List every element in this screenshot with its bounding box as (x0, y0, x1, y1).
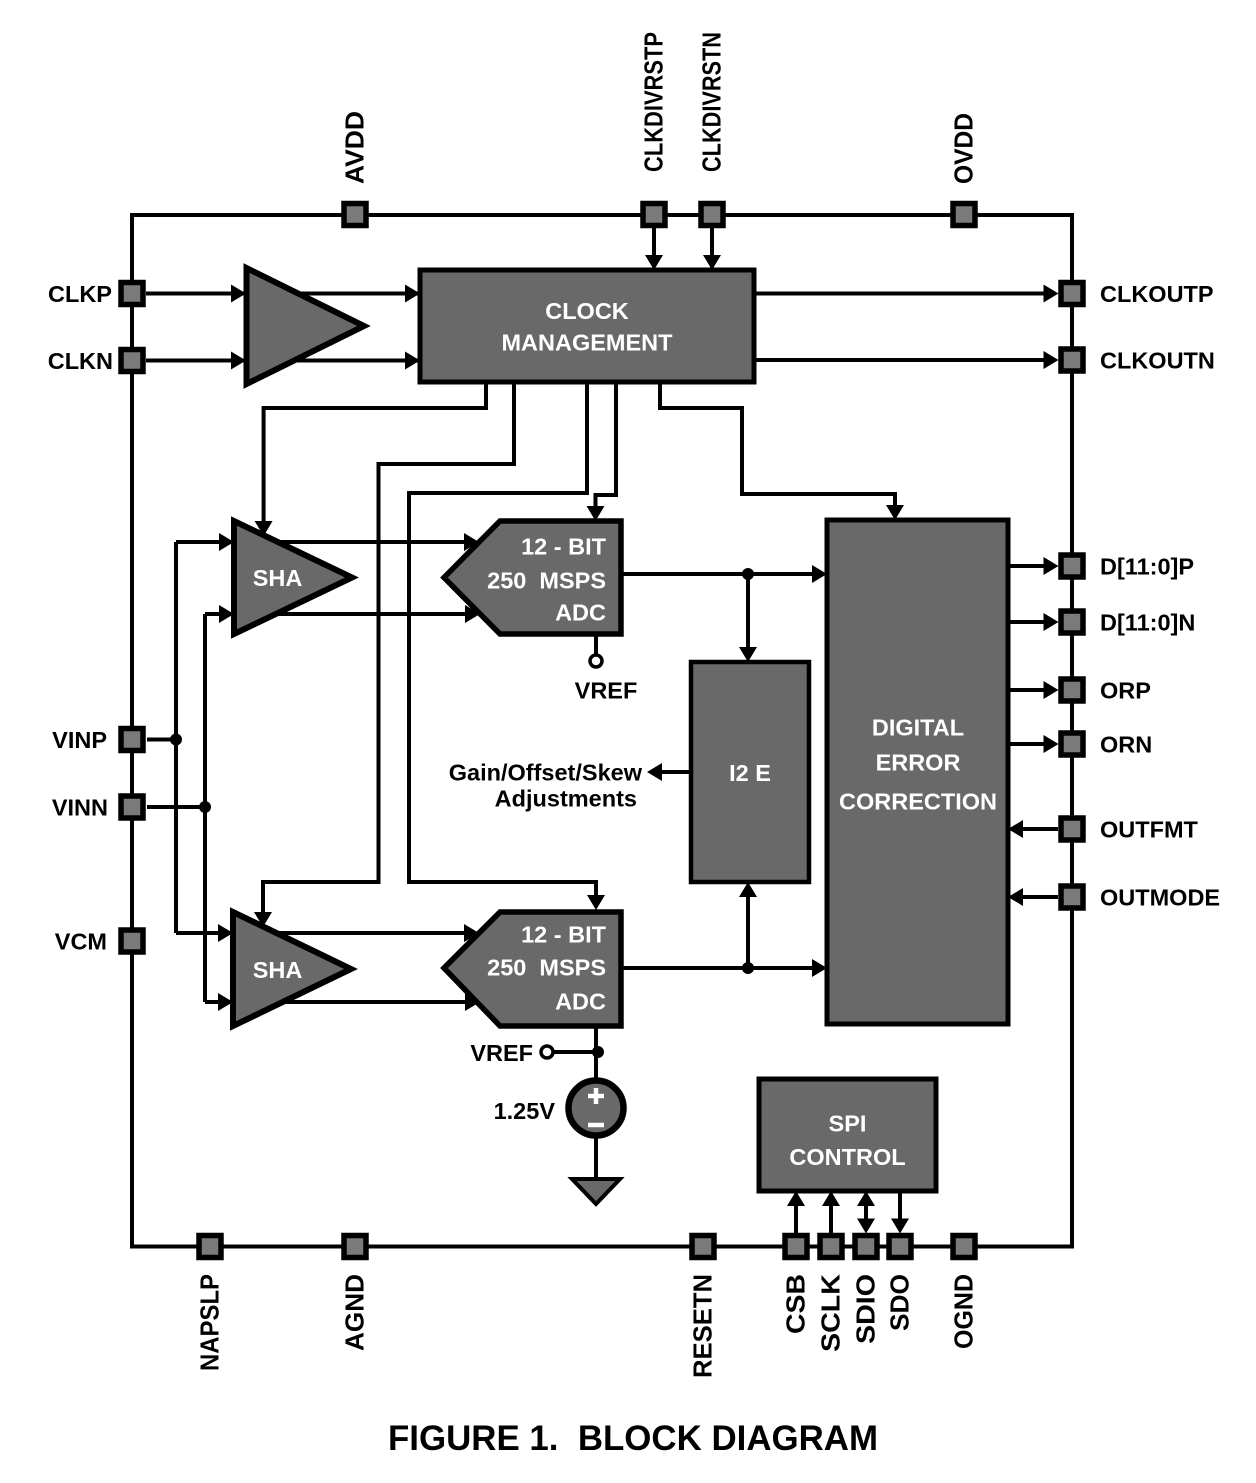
arrowhead I2E to adjustments (647, 763, 662, 781)
wire SDIO to SPI control bidirectional (864, 1203, 868, 1221)
svg-text:VREF: VREF (575, 678, 638, 704)
svg-text:ORN: ORN (1100, 732, 1152, 758)
pin CLKOUTP (1061, 283, 1083, 305)
svg-text:CLKP: CLKP (48, 281, 112, 307)
pin D[11:0]N (1061, 611, 1083, 633)
arrowhead clock into lower SHA (254, 912, 272, 927)
clock input buffer (247, 268, 365, 384)
wire SDO from SPI control (898, 1191, 902, 1221)
wire VINP vertical net (174, 542, 178, 933)
svg-text:SHA: SHA (253, 957, 303, 983)
svg-text:CLKDIVRSTP: CLKDIVRSTP (641, 32, 669, 172)
wire clock to upper SHA (264, 382, 486, 523)
wire OUTMODE to DEC (1020, 895, 1058, 899)
svg-text:MANAGEMENT: MANAGEMENT (501, 330, 673, 356)
pin CSB (785, 1236, 807, 1258)
arrowhead into I2E top (739, 647, 757, 662)
pin SDO (889, 1236, 911, 1258)
arrowhead CLKOUTP at pin (1044, 285, 1059, 303)
svg-text:DIGITAL: DIGITAL (872, 715, 964, 741)
wire CSB to SPI control (794, 1203, 798, 1234)
wire upper ADC output to digital error correction (621, 572, 814, 576)
arrowhead VINN into upper SHA (219, 605, 234, 623)
wire VINP stub (147, 738, 176, 742)
node junction at VINP (170, 734, 182, 746)
svg-text:1.25V: 1.25V (494, 1098, 556, 1124)
wire 1.25V source to ground (594, 1135, 598, 1180)
pin NAPSLP (199, 1236, 221, 1258)
svg-text:ADC: ADC (555, 989, 606, 1015)
arrowhead VINP into upper SHA (219, 533, 234, 551)
svg-text:CLKN: CLKN (48, 348, 113, 374)
node junction at VINN (199, 801, 211, 813)
arrowhead clock into DEC top (886, 505, 904, 520)
arrowhead upper SHA output into upper ADC (464, 533, 479, 551)
wire CLKOUTN from clock management (754, 358, 1046, 362)
wire CLKDIVRSTN into clock management (710, 228, 714, 258)
svg-text:CLKOUTN: CLKOUTN (1100, 348, 1215, 374)
svg-text:FIGURE 1. BLOCK DIAGRAM: FIGURE 1. BLOCK DIAGRAM (388, 1419, 878, 1458)
arrowhead SCLK into SPI (822, 1191, 840, 1206)
upper SHA amplifier (234, 521, 352, 634)
wire CLKN to buffer and clock management (146, 359, 420, 363)
arrowhead SDIO into SPI (857, 1191, 875, 1206)
pin ORP (1061, 679, 1083, 701)
chip boundary border (132, 215, 1072, 1247)
pin OGND (953, 1236, 975, 1258)
wire clock to lower ADC (409, 382, 596, 898)
svg-text:CLOCK: CLOCK (545, 298, 629, 324)
svg-text:ERROR: ERROR (876, 750, 961, 776)
upper 12-bit 250 MSPS ADC (444, 521, 621, 634)
arrowhead CLKN into clock management (405, 352, 420, 370)
svg-text:250 MSPS: 250 MSPS (487, 955, 606, 981)
svg-text:ADC: ADC (555, 600, 606, 626)
SPI control block (759, 1079, 936, 1191)
wire lower ADC to 1.25V source (594, 1026, 598, 1081)
pin CLKP (121, 283, 143, 305)
wire DEC to D[11:0]N (1008, 620, 1046, 624)
svg-text:VINN: VINN (52, 795, 108, 821)
pin VCM (121, 930, 143, 952)
arrowhead OUTMODE into DEC (1008, 888, 1023, 906)
wire VINN vertical net (203, 614, 207, 1002)
pin SCLK (820, 1236, 842, 1258)
wire lower ADC output to digital error correction (621, 966, 814, 970)
svg-text:250 MSPS: 250 MSPS (487, 568, 606, 594)
pin CLKDIVRSTN (701, 204, 723, 226)
pin ORN (1061, 733, 1083, 755)
svg-text:SPI: SPI (829, 1111, 867, 1137)
svg-text:D[11:0]N: D[11:0]N (1100, 610, 1195, 636)
wire lower SHA bottom input / output to ADC (205, 1000, 466, 1004)
svg-text:CSB: CSB (783, 1274, 811, 1334)
wire I2E to gain/offset/skew adjustments (659, 770, 691, 774)
wire DEC to ORP (1008, 688, 1046, 692)
svg-text:VREF: VREF (470, 1040, 533, 1066)
node junction lower ADC output (742, 962, 754, 974)
svg-text:NAPSLP: NAPSLP (197, 1274, 225, 1371)
wire upper SHA bottom input / output to ADC (205, 612, 466, 616)
svg-text:OVDD: OVDD (951, 113, 979, 184)
wire OUTFMT to DEC (1020, 827, 1058, 831)
svg-text:VCM: VCM (55, 929, 107, 955)
pin VINP (121, 729, 143, 751)
arrowhead lower ADC output into DEC (812, 959, 827, 977)
svg-text:CLKDIVRSTN: CLKDIVRSTN (699, 32, 727, 172)
arrowhead CLKP into buffer (231, 285, 246, 303)
wire lower ADC output branch to I2E (746, 894, 750, 968)
svg-text:SDO: SDO (887, 1274, 915, 1331)
arrowhead DEC to ORN pin (1044, 735, 1059, 753)
node junction VREF net (592, 1046, 604, 1058)
arrowhead DEC to ORP pin (1044, 681, 1059, 699)
node VREF lower open terminal (541, 1046, 553, 1058)
arrowhead into I2E bottom (739, 882, 757, 897)
node VREF upper open terminal (590, 655, 602, 667)
node junction upper ADC output (742, 568, 754, 580)
wire upper SHA top input / output to ADC (176, 540, 466, 544)
pin D[11:0]P (1061, 555, 1083, 577)
svg-text:D[11:0]P: D[11:0]P (1100, 554, 1194, 580)
wire VREF to junction (553, 1050, 598, 1054)
arrowhead DEC to D[11:0]N pin (1044, 613, 1059, 631)
wire lower SHA top input / output to ADC (176, 931, 466, 935)
arrowhead CLKN into buffer (231, 352, 246, 370)
arrowhead DEC to D[11:0]P pin (1044, 557, 1059, 575)
arrowhead SDO to pin (891, 1219, 909, 1234)
arrowhead clock into lower ADC (587, 895, 605, 910)
arrowhead into upper ADC lower input (465, 605, 480, 623)
ground (572, 1179, 620, 1204)
arrowhead lower SHA output into lower ADC (464, 924, 479, 942)
arrowhead CLKOUTN at pin (1044, 351, 1059, 369)
wire upper ADC output branch to I2E (746, 574, 750, 650)
arrowhead SDIO to pin (857, 1219, 875, 1234)
svg-text:OUTFMT: OUTFMT (1100, 817, 1199, 843)
wire DEC to ORN (1008, 742, 1046, 746)
svg-text:CONTROL: CONTROL (789, 1144, 905, 1170)
arrowhead CLKDIVRSTN into clock management (703, 255, 721, 270)
arrowhead clock into upper SHA (255, 521, 273, 536)
wire upper ADC VREF stub (594, 634, 598, 655)
pin OUTMODE (1061, 886, 1083, 908)
pin VINN (121, 796, 143, 818)
arrowhead CSB into SPI (787, 1191, 805, 1206)
pin RESETN (692, 1236, 714, 1258)
svg-text:12 - BIT: 12 - BIT (521, 922, 607, 948)
arrowhead VINN into lower SHA (218, 993, 233, 1011)
lower 12-bit 250 MSPS ADC (444, 912, 621, 1026)
lower SHA amplifier (233, 912, 351, 1026)
pin OVDD (953, 204, 975, 226)
wire clock to lower SHA (263, 382, 514, 914)
pin CLKN (121, 350, 143, 372)
svg-text:VINP: VINP (52, 727, 107, 753)
arrowhead into lower ADC lower input (465, 993, 480, 1011)
svg-text:CLKOUTP: CLKOUTP (1100, 281, 1214, 307)
wire clock to digital error correction (660, 382, 895, 508)
svg-text:AVDD: AVDD (342, 111, 370, 184)
svg-text:SDIO: SDIO (853, 1274, 881, 1344)
op-amp U1 clock management block (420, 270, 754, 382)
wire CLKOUTP from clock management (754, 292, 1046, 296)
wire CLKP to buffer and clock management (146, 292, 420, 296)
svg-text:SCLK: SCLK (818, 1273, 846, 1352)
pin CLKDIVRSTP (643, 204, 665, 226)
pin AVDD (344, 204, 366, 226)
arrowhead VINP into lower SHA (218, 924, 233, 942)
svg-text:OUTMODE: OUTMODE (1100, 885, 1220, 911)
svg-text:AGND: AGND (342, 1274, 370, 1351)
arrowhead clock into upper ADC (587, 506, 605, 521)
svg-text:Adjustments: Adjustments (495, 786, 637, 812)
wire CLKDIVRSTP into clock management (652, 228, 656, 258)
wire clock to upper ADC (596, 382, 617, 509)
wire DEC to D[11:0]P (1008, 564, 1046, 568)
wire VINN stub (147, 805, 205, 809)
arrowhead OUTFMT into DEC (1008, 820, 1023, 838)
pin CLKOUTN (1061, 349, 1083, 371)
I2E block (691, 662, 809, 882)
arrowhead CLKP into clock management (405, 285, 420, 303)
1.25V voltage source V1 (569, 1081, 624, 1136)
arrowhead upper ADC output into DEC (812, 565, 827, 583)
digital error correction block (827, 520, 1008, 1024)
svg-text:CORRECTION: CORRECTION (839, 789, 997, 815)
svg-text:SHA: SHA (253, 565, 303, 591)
svg-text:OGND: OGND (951, 1274, 979, 1349)
svg-text:12 - BIT: 12 - BIT (521, 534, 607, 560)
svg-text:RESETN: RESETN (690, 1274, 718, 1378)
wire SCLK to SPI control (829, 1203, 833, 1234)
svg-text:Gain/Offset/Skew: Gain/Offset/Skew (449, 760, 643, 786)
pin AGND (344, 1236, 366, 1258)
svg-text:I2 E: I2 E (729, 760, 771, 786)
pin SDIO (855, 1236, 877, 1258)
arrowhead CLKDIVRSTP into clock management (645, 255, 663, 270)
svg-text:ORP: ORP (1100, 678, 1151, 704)
pin OUTFMT (1061, 818, 1083, 840)
